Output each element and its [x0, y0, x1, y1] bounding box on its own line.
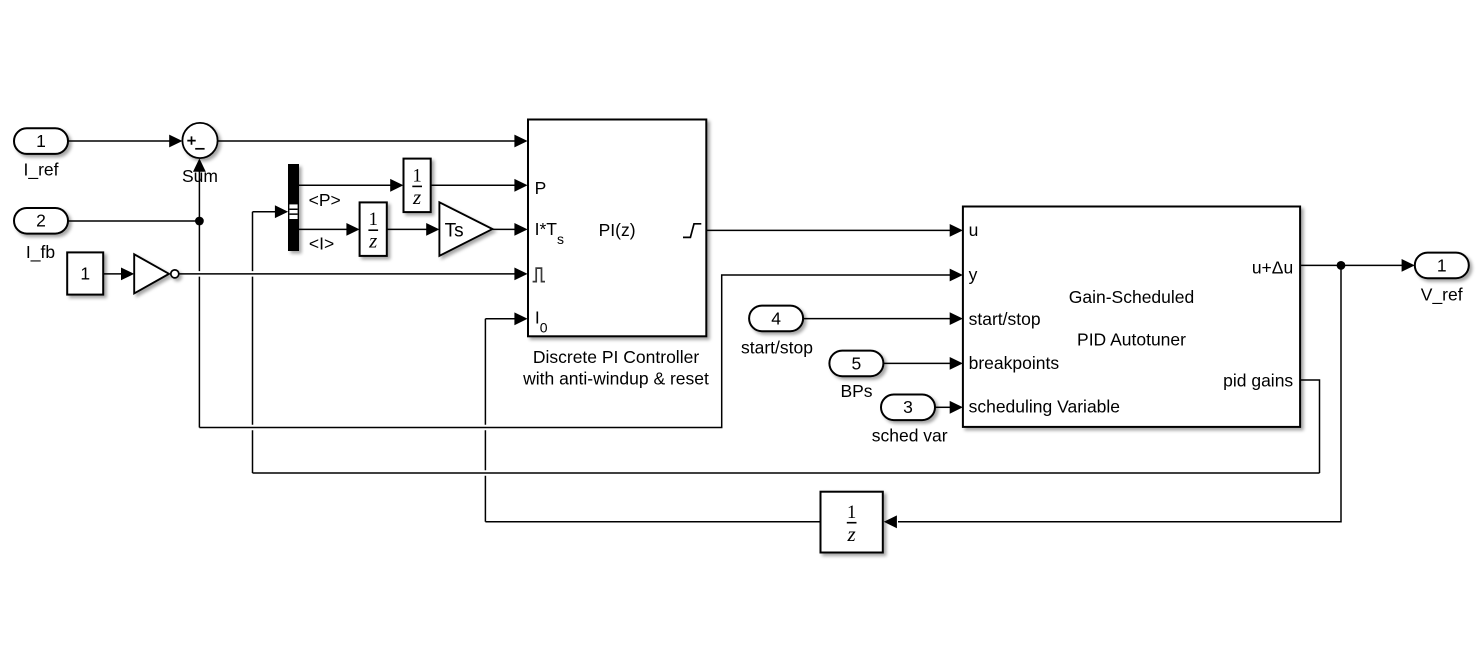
svg-text:V_ref: V_ref — [1421, 285, 1463, 306]
arrowhead into I*Ts port — [514, 223, 527, 236]
wire: constant to NOT gate — [103, 273, 121, 275]
svg-text:1: 1 — [847, 503, 856, 523]
svg-text:<P>: <P> — [309, 190, 341, 210]
bottom unit delay 1/z — [821, 492, 883, 553]
arrowhead into P port — [514, 179, 527, 192]
wire: port5 to breakpoints — [883, 362, 950, 364]
arrowhead into unit delay 1 — [390, 179, 403, 192]
arrowhead into PI(z) input 1 — [514, 135, 527, 148]
wire: bottom unit delay output to I0 port — [485, 521, 820, 523]
wire: Sum feedback vertical (under layer) — [198, 172, 200, 428]
arrowhead into reset port — [514, 268, 527, 281]
junction node at I_fb branch — [195, 217, 204, 226]
reset port icon — [533, 268, 545, 282]
svg-text:I_ref: I_ref — [23, 160, 58, 181]
svg-text:z: z — [847, 522, 856, 546]
outport 1 V_ref — [1415, 253, 1469, 279]
arrowhead into start/stop port — [950, 312, 963, 325]
svg-text:start/stop: start/stop — [741, 338, 813, 358]
arrowhead into u port — [950, 224, 963, 237]
NOT gate — [134, 254, 179, 293]
inport 1 I_ref — [14, 128, 68, 154]
arrowhead into breakpoints port — [950, 357, 963, 370]
svg-text:pid gains: pid gains — [1223, 370, 1293, 390]
gain-scheduled PID autotuner block — [963, 207, 1300, 427]
wire: bus selector bottom output to unit delay 2 — [299, 228, 347, 230]
junction node at V_ref branch — [1337, 261, 1346, 270]
svg-text:start/stop: start/stop — [969, 309, 1041, 329]
arrowhead into NOT gate — [121, 267, 134, 280]
svg-text:with anti-windup & reset: with anti-windup & reset — [522, 369, 709, 389]
PI(z) discrete PI controller block — [528, 120, 706, 337]
wire: I_fb to junction — [68, 220, 200, 222]
sum block — [182, 123, 217, 158]
inport 2 I_fb — [14, 208, 68, 234]
arrowhead into unit delay 2 — [346, 223, 359, 236]
arrowhead into bottom unit delay — [884, 515, 897, 528]
svg-text:1: 1 — [412, 166, 421, 186]
svg-text:breakpoints: breakpoints — [969, 353, 1060, 373]
gain Ts — [439, 202, 492, 256]
wire: pid-gains feedback vertical (under layer) — [252, 212, 254, 473]
svg-text:3: 3 — [903, 397, 913, 417]
arrowhead into Sum bottom input — [193, 158, 206, 171]
svg-text:P: P — [535, 178, 547, 198]
wire: PI(z) output to u port — [706, 229, 950, 231]
wire: bus selector top output to unit delay 1 — [299, 184, 391, 186]
svg-text:BPs: BPs — [840, 381, 872, 401]
svg-text:Ts: Ts — [445, 220, 464, 241]
svg-text:u: u — [969, 220, 979, 240]
arrowhead into bus selector — [275, 205, 288, 218]
svg-text:z: z — [412, 185, 421, 209]
wire: junction down to bottom unit delay input — [898, 265, 1341, 521]
svg-text:4: 4 — [771, 308, 781, 328]
wire: port3 to scheduling variable — [935, 406, 950, 408]
arrowhead into V_ref outport — [1402, 259, 1415, 272]
wire: unit delay 1 to P port — [431, 184, 515, 186]
svg-text:I_fb: I_fb — [26, 242, 55, 263]
svg-text:z: z — [368, 229, 377, 253]
svg-text:y: y — [969, 265, 978, 285]
svg-text:2: 2 — [36, 211, 46, 231]
svg-text:Discrete PI Controller: Discrete PI Controller — [533, 347, 699, 367]
wire: junction down to y-port route (horizontal with crossing casing) — [206, 425, 716, 431]
svg-text:1: 1 — [369, 210, 378, 230]
inport 5 BPs — [829, 351, 883, 377]
arrowhead into I0 port — [514, 312, 527, 325]
svg-text:PID Autotuner: PID Autotuner — [1077, 330, 1186, 350]
wire: u+du to V_ref — [1300, 264, 1402, 266]
unit delay 1 — [404, 159, 431, 213]
svg-text:scheduling Variable: scheduling Variable — [969, 397, 1120, 417]
svg-text:1: 1 — [1437, 255, 1447, 275]
svg-text:sched var: sched var — [872, 426, 948, 446]
svg-text:1: 1 — [80, 264, 90, 284]
wire: unit delay 2 to Ts gain — [387, 228, 427, 230]
bus selector — [288, 164, 299, 251]
arrowhead into Ts gain — [426, 223, 439, 236]
wire: NOT gate to PI reset port — [185, 271, 508, 277]
wire: I_ref to Sum — [68, 140, 170, 142]
wire: Sum to PI(z) input 1 — [218, 140, 515, 142]
svg-text:Gain-Scheduled: Gain-Scheduled — [1069, 287, 1195, 307]
wire: port4 to start/stop — [803, 318, 950, 320]
unit delay 2 — [360, 202, 387, 256]
svg-text:1: 1 — [36, 131, 46, 151]
inport 4 start/stop — [749, 306, 803, 332]
arrowhead into Sum left input — [169, 135, 182, 148]
arrowhead into scheduling variable port — [950, 401, 963, 414]
svg-text:<I>: <I> — [309, 233, 334, 253]
wire: I0 feedback vertical (under layer) — [484, 319, 486, 522]
wire: pid gains feedback (right and bottom run) — [1300, 380, 1320, 473]
wire: Ts gain to I*Ts port — [492, 228, 515, 230]
arrowhead into y port — [950, 269, 963, 282]
svg-text:u+Δu: u+Δu — [1252, 258, 1293, 278]
svg-text:5: 5 — [852, 353, 862, 373]
constant block 1 — [67, 252, 103, 294]
inport 3 sched var — [881, 395, 935, 421]
svg-text:PI(z): PI(z) — [599, 220, 636, 240]
saturation output icon — [683, 224, 701, 238]
